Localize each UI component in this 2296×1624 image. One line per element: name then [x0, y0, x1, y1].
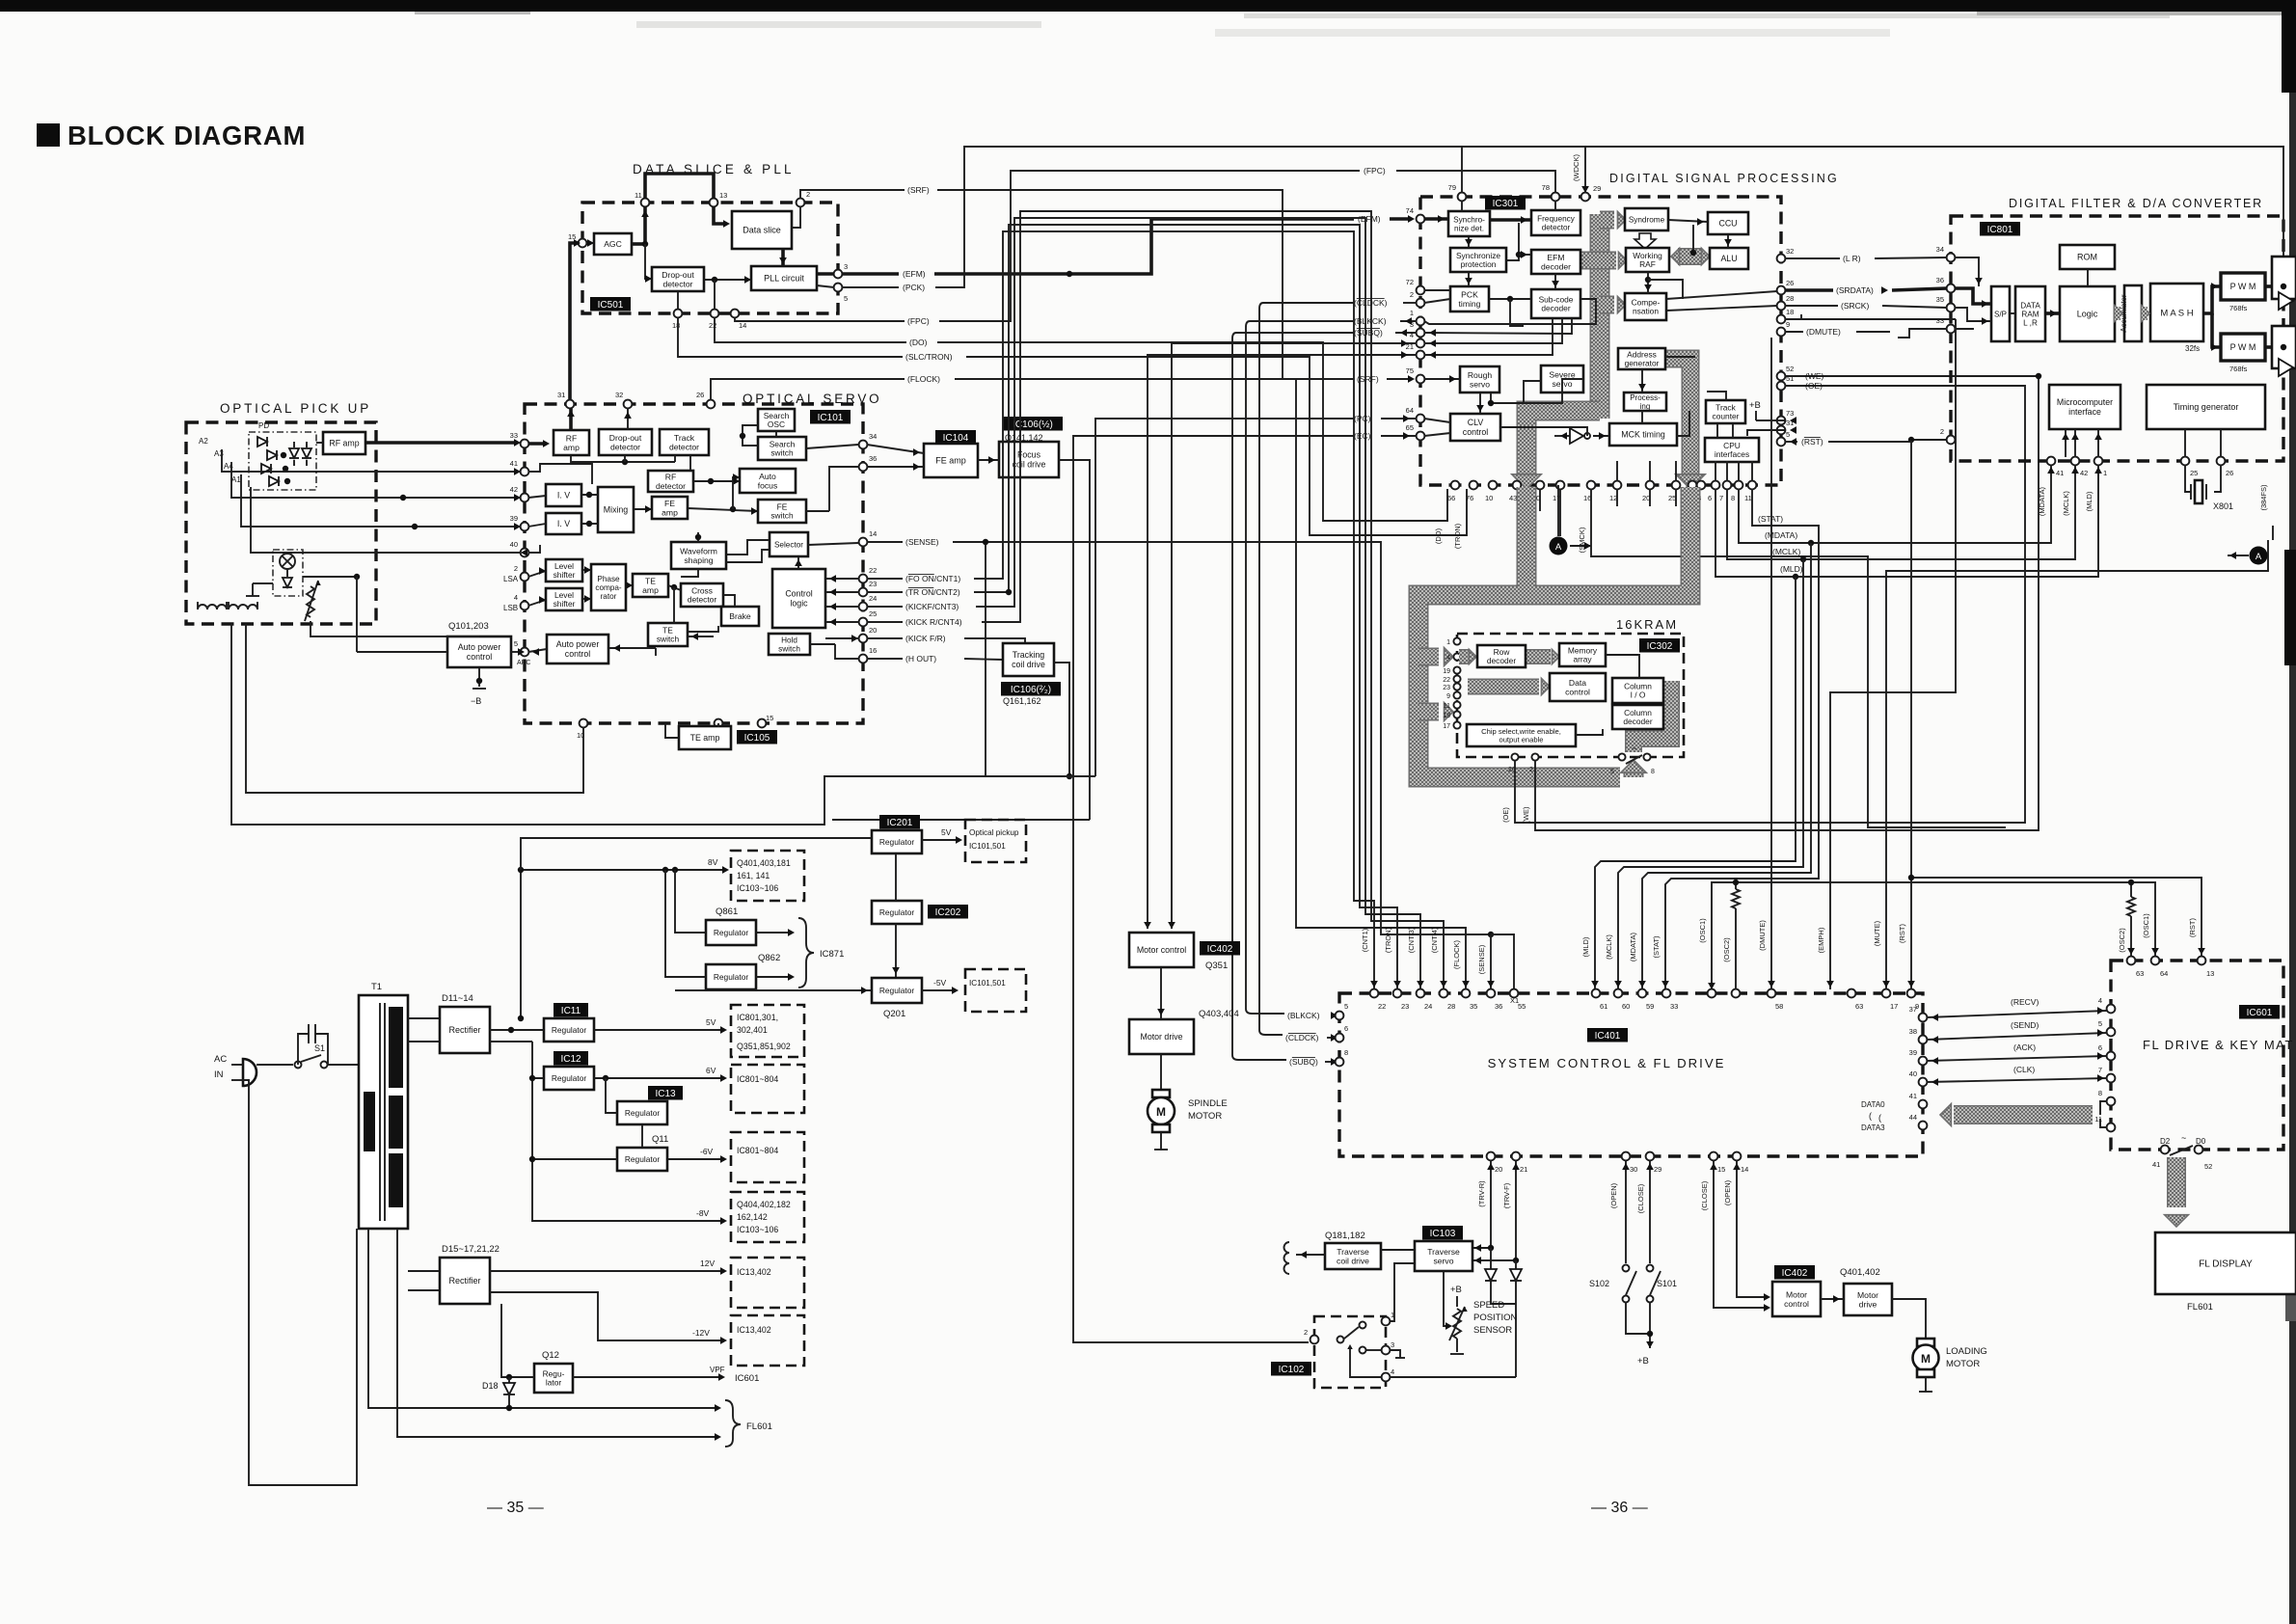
svg-text:Q861: Q861 — [716, 907, 738, 917]
label Q401,402 — [1840, 1267, 1880, 1278]
block Processing — [1624, 392, 1666, 411]
svg-text:(FPC): (FPC) — [1364, 166, 1386, 176]
svg-text:−B: −B — [471, 696, 481, 706]
wire TE switch line — [688, 633, 714, 640]
wire traverse servo to sensor — [1444, 1271, 1452, 1330]
svg-text:control: control — [1784, 1299, 1809, 1309]
svg-text:(SRCK): (SRCK) — [1841, 301, 1869, 311]
label Q141,142 — [1005, 433, 1043, 443]
svg-text:22: 22 — [1443, 677, 1450, 684]
svg-text:66: 66 — [1447, 494, 1455, 502]
svg-text:control: control — [565, 649, 590, 659]
svg-text:(SENSE): (SENSE) — [1477, 944, 1486, 974]
wire Drop-out down pin18 — [678, 280, 715, 310]
switch S1 with capacitor — [257, 1024, 359, 1069]
section title OPTICAL PICK UP — [220, 401, 371, 416]
svg-text:Q181,182: Q181,182 — [1325, 1231, 1365, 1241]
svg-text:63: 63 — [1855, 1002, 1863, 1011]
svg-text:6V: 6V — [706, 1066, 716, 1075]
white arrow Syndrome to Working RAF — [1634, 233, 1656, 249]
svg-text:41: 41 — [1909, 1092, 1917, 1100]
svg-text:IC101,501: IC101,501 — [969, 842, 1006, 851]
IC401 pins right — [1909, 1005, 1928, 1129]
svg-text:2: 2 — [1304, 1328, 1308, 1337]
svg-text:(MCLK): (MCLK) — [1772, 547, 1800, 556]
gray bus DATA0-DATA3 — [1940, 1101, 2107, 1127]
svg-text:counter: counter — [1713, 412, 1740, 421]
net (BLKCK) — [1246, 316, 1417, 1020]
svg-text:23: 23 — [1443, 685, 1450, 691]
svg-text:Logic: Logic — [2077, 310, 2098, 319]
net 12V — [490, 1259, 727, 1275]
wire IC202 to Q201 — [892, 924, 900, 978]
net (WE) RAM — [1522, 371, 2041, 830]
net (MUTE) — [1873, 540, 2268, 989]
svg-text:decoder: decoder — [1487, 656, 1516, 665]
svg-text:8: 8 — [1344, 1048, 1348, 1057]
svg-text:(MDATA): (MDATA) — [1629, 932, 1637, 961]
block TE amp — [633, 574, 668, 597]
svg-text:IC11: IC11 — [561, 1006, 581, 1016]
svg-text:detector: detector — [610, 442, 640, 451]
svg-text:55: 55 — [1518, 1002, 1526, 1011]
svg-text:IC601: IC601 — [2247, 1008, 2273, 1018]
photodiode array PD — [249, 421, 316, 490]
svg-text:Waveform: Waveform — [680, 546, 717, 555]
svg-text:Q351: Q351 — [1205, 961, 1228, 971]
laser diode assembly — [246, 550, 360, 596]
svg-text:compa-: compa- — [595, 583, 622, 592]
wire -8V feed to Q201 — [675, 987, 872, 994]
section title DIGITAL FILTER & D/A CONVERTER — [2009, 197, 2263, 210]
svg-text:33: 33 — [1670, 1002, 1678, 1011]
svg-text:IC202: IC202 — [935, 907, 961, 918]
svg-text:-8V: -8V — [696, 1208, 710, 1218]
svg-text:RF: RF — [665, 472, 676, 481]
wire node column (servo aux) — [983, 539, 988, 776]
labels A2 A3 A4 A1 — [199, 437, 241, 484]
wire selector to pin14 — [808, 543, 858, 545]
svg-text:5V: 5V — [941, 827, 952, 837]
block Address generator — [1618, 348, 1665, 369]
wire motor drive to loading motor — [1892, 1299, 1926, 1339]
wires T1 to rectifier2 — [408, 1271, 440, 1290]
IC401 chip label — [1587, 1028, 1628, 1042]
IC302 pins bottom 20 21 5 8 — [1508, 744, 1655, 775]
svg-text:(RECV): (RECV) — [2011, 997, 2039, 1007]
svg-text:1: 1 — [2103, 469, 2107, 477]
net (OSC2) with resistor — [1722, 880, 2135, 989]
svg-text:FL DRIVE & KEY MAT: FL DRIVE & KEY MAT — [2143, 1038, 2294, 1052]
block MASH — [2150, 284, 2203, 341]
wire pin31 stub — [1747, 426, 1796, 436]
svg-text:5: 5 — [1786, 430, 1790, 439]
motor SPINDLE MOTOR — [1148, 1090, 1175, 1150]
block ROM — [2060, 245, 2115, 269]
block FE amp (servo) — [652, 497, 688, 519]
IC302 dashed boundary — [1457, 634, 1684, 757]
net (RST) to IC601 — [1898, 918, 2205, 988]
block Traverse servo — [1415, 1241, 1472, 1271]
svg-text:FE amp: FE amp — [935, 456, 966, 466]
svg-text:(TR ON/CNT2): (TR ON/CNT2) — [905, 587, 960, 597]
gray bus DSP right leg join — [1533, 487, 1690, 595]
label Q351 — [1205, 961, 1228, 971]
wire focus coil drive return — [1059, 460, 1090, 820]
svg-text:detector: detector — [688, 595, 716, 605]
svg-text:P W M: P W M — [2230, 282, 2256, 291]
svg-text:+B: +B — [1637, 1356, 1649, 1367]
svg-text:IC101,501: IC101,501 — [969, 979, 1006, 988]
svg-text:switch: switch — [770, 511, 794, 521]
svg-text:Selector: Selector — [774, 541, 803, 550]
wire Data slice down to PLL — [779, 249, 787, 266]
svg-text:(OSC1): (OSC1) — [2142, 913, 2150, 938]
block ALU — [1710, 248, 1748, 269]
svg-text:— 36 —: — 36 — — [1591, 1500, 1648, 1516]
svg-text:(WDCK): (WDCK) — [1572, 154, 1580, 181]
net (OSC1) — [1698, 882, 2159, 989]
svg-text:28: 28 — [1786, 294, 1794, 303]
block Synchro-nize det — [1448, 211, 1490, 236]
wire AGC in from pin 15 — [586, 239, 594, 247]
block FL DISPLAY — [2155, 1232, 2296, 1294]
svg-text:~: ~ — [1632, 744, 1636, 753]
svg-text:Q201: Q201 — [883, 1009, 905, 1019]
svg-text:(: ( — [1869, 1111, 1872, 1121]
svg-text:(384FS): (384FS) — [2259, 484, 2268, 511]
svg-text:6: 6 — [1344, 1024, 1348, 1033]
gray bus DSP down-left leg — [1512, 411, 1600, 489]
variable resistor (APC sense) — [305, 581, 321, 621]
net (SEND) — [1927, 1020, 2107, 1043]
svg-text:shifter: shifter — [554, 570, 576, 580]
block Regulator IC201 — [872, 830, 922, 853]
wire TE amp to cross detector — [668, 584, 681, 590]
traverse coil symbol — [1284, 1242, 1290, 1274]
svg-text:(BLKCK): (BLKCK) — [1354, 316, 1387, 326]
block Selector — [770, 532, 808, 556]
svg-text:APC: APC — [517, 660, 530, 666]
net FL601 filament — [368, 1229, 772, 1447]
svg-text:22: 22 — [869, 566, 877, 575]
block Rectifier 1 — [440, 1007, 490, 1053]
block Column decoder — [1612, 705, 1663, 729]
svg-text:IC105: IC105 — [744, 733, 770, 744]
svg-text:(OPEN): (OPEN) — [1723, 1179, 1732, 1205]
svg-text:-12V: -12V — [692, 1328, 710, 1338]
svg-text:IC103~106: IC103~106 — [737, 883, 778, 893]
net (RST) right — [1785, 437, 2201, 989]
block Waveform shaping — [671, 542, 726, 569]
svg-text:T1: T1 — [371, 982, 382, 992]
block Sub-code decoder — [1531, 289, 1580, 318]
svg-text:IC601: IC601 — [735, 1373, 759, 1384]
net (KICK R/CNT4) — [867, 211, 1447, 989]
block Tracking coil drive — [1003, 643, 1054, 676]
net (FO ON/CNT1) — [867, 231, 1378, 989]
wire rectifier2 to Q12 — [501, 1304, 534, 1380]
svg-text:(ACK): (ACK) — [2013, 1042, 2036, 1052]
net (SENSE) — [867, 537, 1519, 1005]
svg-text:Regulator: Regulator — [879, 837, 915, 847]
svg-text:3: 3 — [1391, 1340, 1394, 1349]
svg-text:65: 65 — [1406, 423, 1414, 432]
svg-text:13: 13 — [719, 191, 727, 200]
block Data slice — [732, 211, 792, 249]
wire pin6 to TE amp IC105 — [717, 723, 719, 727]
load box Optical pickup IC101,501 — [965, 820, 1026, 862]
AC IN plug — [214, 1054, 257, 1086]
net -8V — [529, 1156, 727, 1225]
svg-text:LSB: LSB — [503, 604, 518, 612]
svg-text:(WE): (WE) — [1805, 371, 1824, 381]
gray arrow Logic to Accumulator — [2114, 305, 2122, 321]
svg-text:35: 35 — [1470, 1002, 1477, 1011]
svg-text:34: 34 — [869, 432, 877, 441]
svg-text:D15~17,21,22: D15~17,21,22 — [442, 1244, 500, 1255]
svg-text:38: 38 — [1909, 1027, 1917, 1036]
IC302 chip label — [1639, 638, 1680, 653]
net (CLDCK) — [1259, 298, 1417, 1042]
svg-text:3: 3 — [844, 262, 848, 271]
svg-text:13: 13 — [2206, 969, 2214, 978]
svg-text:32fs: 32fs — [2185, 344, 2200, 353]
wire control logic up to selector — [795, 556, 802, 569]
svg-text:72: 72 — [1406, 278, 1414, 286]
svg-text:(MDATA): (MDATA) — [1765, 530, 1797, 540]
block Level shifter lower — [546, 588, 582, 610]
IC501 pins 18 22 14 bottom — [672, 310, 746, 330]
svg-text:POSITION: POSITION — [1473, 1313, 1518, 1323]
pin numbers IC101 left — [503, 431, 530, 666]
svg-text:CLV: CLV — [1468, 418, 1484, 427]
svg-text:amp: amp — [662, 507, 678, 517]
net (RECV) — [1927, 997, 2107, 1021]
svg-text:64: 64 — [2160, 969, 2168, 978]
block Track counter — [1706, 400, 1745, 423]
block Regulator Q862 — [706, 964, 756, 989]
svg-text:31: 31 — [557, 391, 565, 399]
wire drop-out up pin32 — [624, 408, 632, 429]
block CLV control — [1450, 414, 1500, 441]
svg-text:A2: A2 — [199, 437, 208, 446]
svg-text:FL DISPLAY: FL DISPLAY — [2199, 1259, 2253, 1270]
block Syndrome — [1625, 208, 1668, 230]
IC402 chip label (loading) — [1774, 1265, 1815, 1280]
svg-text:40: 40 — [1909, 1069, 1917, 1078]
svg-text:detector: detector — [1542, 224, 1571, 232]
svg-text:Regulator: Regulator — [714, 972, 749, 982]
svg-text:servo: servo — [1433, 1256, 1453, 1265]
net (FLOCK) — [711, 374, 1470, 989]
svg-text:S1: S1 — [314, 1043, 325, 1053]
block DATA RAM L,R — [2015, 286, 2045, 341]
svg-text:Regulator: Regulator — [625, 1108, 661, 1118]
block Cross detector — [681, 583, 723, 607]
svg-text:control: control — [467, 652, 492, 662]
svg-text:5: 5 — [844, 294, 848, 303]
block CCU — [1708, 212, 1748, 234]
svg-text:Phase: Phase — [597, 575, 620, 583]
amplifier AGC — [594, 233, 632, 255]
svg-text:15: 15 — [568, 232, 576, 241]
svg-text:PLL circuit: PLL circuit — [764, 274, 804, 284]
svg-text:17: 17 — [1443, 723, 1450, 730]
switch S101 — [1647, 1265, 1678, 1303]
net (MLD) — [1581, 465, 2102, 989]
amplifier RF amp (pickup) — [323, 432, 365, 454]
label SPEED POSITION SENSOR — [1473, 1300, 1518, 1336]
svg-text:A: A — [2255, 552, 2262, 562]
svg-text:161, 141: 161, 141 — [737, 871, 770, 880]
svg-text:(DO): (DO) — [909, 338, 928, 347]
svg-text:32: 32 — [1786, 247, 1794, 256]
label 768fs lower — [2229, 365, 2248, 373]
svg-text:4: 4 — [1391, 1367, 1394, 1376]
IC102 dashed boundary — [1314, 1316, 1386, 1388]
block Regulator Q861 — [706, 920, 756, 945]
svg-text:Traverse: Traverse — [1427, 1247, 1460, 1257]
svg-text:Optical pickup: Optical pickup — [969, 828, 1019, 837]
net (SMCK) — [1578, 489, 2006, 827]
IC501 dashed boundary — [582, 203, 838, 313]
section title OPTICAL SERVO — [743, 392, 881, 406]
svg-text:73: 73 — [1786, 409, 1794, 418]
svg-text:IC104: IC104 — [943, 433, 969, 444]
wire IC102 pin3 ground — [1366, 1350, 1405, 1358]
svg-text:(RST): (RST) — [1898, 924, 1906, 943]
IC301 pins top 79 78 — [1448, 183, 1590, 201]
svg-text:162,142: 162,142 — [737, 1212, 768, 1222]
wire drive to spindle motor — [1160, 1054, 1162, 1090]
IC501 pins 3 5 right — [834, 262, 849, 303]
svg-text:18: 18 — [672, 321, 680, 330]
block Compensation — [1625, 293, 1666, 320]
svg-text:29: 29 — [1654, 1165, 1661, 1174]
label Q201 — [883, 1009, 905, 1019]
svg-text:IC402: IC402 — [1782, 1268, 1808, 1279]
off-page connector A (DSP) — [1550, 485, 1592, 555]
svg-text:Brake: Brake — [729, 611, 751, 621]
IC11 chip label — [554, 1003, 588, 1017]
svg-text:PCK: PCK — [1461, 289, 1478, 299]
label 32fs — [2185, 344, 2200, 353]
wire memory array to column io — [1576, 655, 1639, 735]
svg-text:(OSC2): (OSC2) — [2118, 928, 2126, 953]
svg-text:IC302: IC302 — [1647, 641, 1673, 652]
svg-text:protection: protection — [1461, 259, 1497, 269]
gray bus DSP to RAM left leg — [1418, 487, 1620, 777]
gray bus EFM decoder to Working RAF — [1579, 252, 1627, 268]
svg-text:Rough: Rough — [1468, 370, 1493, 380]
svg-text:Regulator: Regulator — [552, 1073, 587, 1083]
block PWM upper — [2221, 273, 2265, 300]
svg-text:Synchro-: Synchro- — [1453, 215, 1485, 224]
svg-text:(CNT 3): (CNT 3) — [1407, 927, 1416, 953]
svg-text:(SRDATA): (SRDATA) — [1836, 285, 1874, 295]
svg-text:coil drive: coil drive — [1013, 460, 1046, 470]
svg-text:Q401,402: Q401,402 — [1840, 1267, 1880, 1278]
svg-text:78: 78 — [1542, 183, 1550, 192]
svg-text:5: 5 — [514, 639, 518, 648]
wire MASH to PWMs — [2203, 283, 2221, 351]
wire D18 bottom join — [506, 1405, 512, 1411]
svg-text:detector: detector — [656, 481, 686, 491]
svg-text:I. V: I. V — [557, 519, 570, 528]
label D15~17,21,22 — [442, 1244, 500, 1255]
svg-text:decoder: decoder — [1623, 717, 1652, 726]
svg-text:(PC): (PC) — [1354, 414, 1371, 423]
IC801 pins left — [1936, 245, 1956, 444]
svg-text:(KICK F/R): (KICK F/R) — [905, 634, 946, 643]
svg-text:8V: 8V — [708, 857, 718, 867]
wire IC201 to IC202 — [895, 853, 897, 901]
svg-text:IC801,301,: IC801,301, — [737, 1013, 778, 1022]
block PWM lower — [2221, 334, 2265, 361]
gray data bus vertical (DSP) — [1590, 214, 1610, 419]
net 768fs top line — [1462, 147, 2283, 257]
wire cross detector to TE switch — [674, 587, 735, 632]
svg-text:(CLDCK): (CLDCK) — [1285, 1033, 1319, 1042]
svg-text:Q401,403,181: Q401,403,181 — [737, 858, 791, 868]
svg-text:30: 30 — [1630, 1165, 1637, 1174]
wire AC return — [243, 1080, 357, 1485]
svg-text:VPF: VPF — [710, 1366, 725, 1374]
label Q101,203 — [448, 621, 489, 632]
wire RF input riser to AGC — [570, 239, 581, 400]
svg-text:(FLOCK): (FLOCK) — [1452, 939, 1461, 969]
svg-text:1: 1 — [1410, 309, 1414, 317]
wire mixing chain — [581, 492, 758, 527]
svg-text:switch: switch — [778, 645, 800, 654]
IC801 pins bottom — [2047, 457, 2234, 477]
svg-text:IC12: IC12 — [560, 1054, 581, 1065]
block Mixing — [598, 487, 634, 532]
svg-text:(OE): (OE) — [1501, 807, 1510, 823]
section title FL DRIVE & KEY MAT — [2143, 1038, 2294, 1052]
svg-text:(MCLK): (MCLK) — [2062, 491, 2070, 516]
net pin30 (OPEN) — [1609, 1160, 1630, 1263]
net (STAT) — [1652, 489, 1819, 989]
svg-text:(MLD): (MLD) — [2085, 491, 2093, 511]
svg-text:44: 44 — [1909, 1113, 1917, 1122]
svg-text:Motor drive: Motor drive — [1141, 1032, 1183, 1042]
svg-text:IC501: IC501 — [598, 300, 624, 311]
net (PCK) to WDCK pin29 — [842, 147, 1601, 292]
load box -6V — [731, 1132, 804, 1182]
svg-text:Traverse: Traverse — [1337, 1247, 1369, 1257]
svg-text:(CLK): (CLK) — [2013, 1065, 2035, 1074]
svg-text:42: 42 — [2080, 469, 2088, 477]
block Severe servo — [1541, 365, 1583, 392]
svg-text:IC801~804: IC801~804 — [737, 1146, 778, 1155]
net (SLC/TRON) — [678, 317, 1467, 549]
svg-text:EFM: EFM — [1547, 253, 1564, 262]
svg-text:(FO ON/CNT1): (FO ON/CNT1) — [905, 574, 960, 583]
svg-text:22: 22 — [1378, 1002, 1386, 1011]
svg-text:Motor: Motor — [1786, 1289, 1807, 1299]
load box 6V — [731, 1065, 804, 1113]
svg-text:4: 4 — [2098, 996, 2102, 1005]
block Focus coil drive — [999, 442, 1059, 477]
block Regulator IC11 — [544, 1018, 594, 1042]
gray bus address generator leg — [1663, 359, 1705, 489]
net (DMUTE) — [1758, 327, 1890, 989]
svg-text:(CLDCK): (CLDCK) — [1354, 298, 1388, 308]
svg-text:24: 24 — [1424, 1002, 1432, 1011]
svg-text:coil drive: coil drive — [1012, 660, 1045, 669]
